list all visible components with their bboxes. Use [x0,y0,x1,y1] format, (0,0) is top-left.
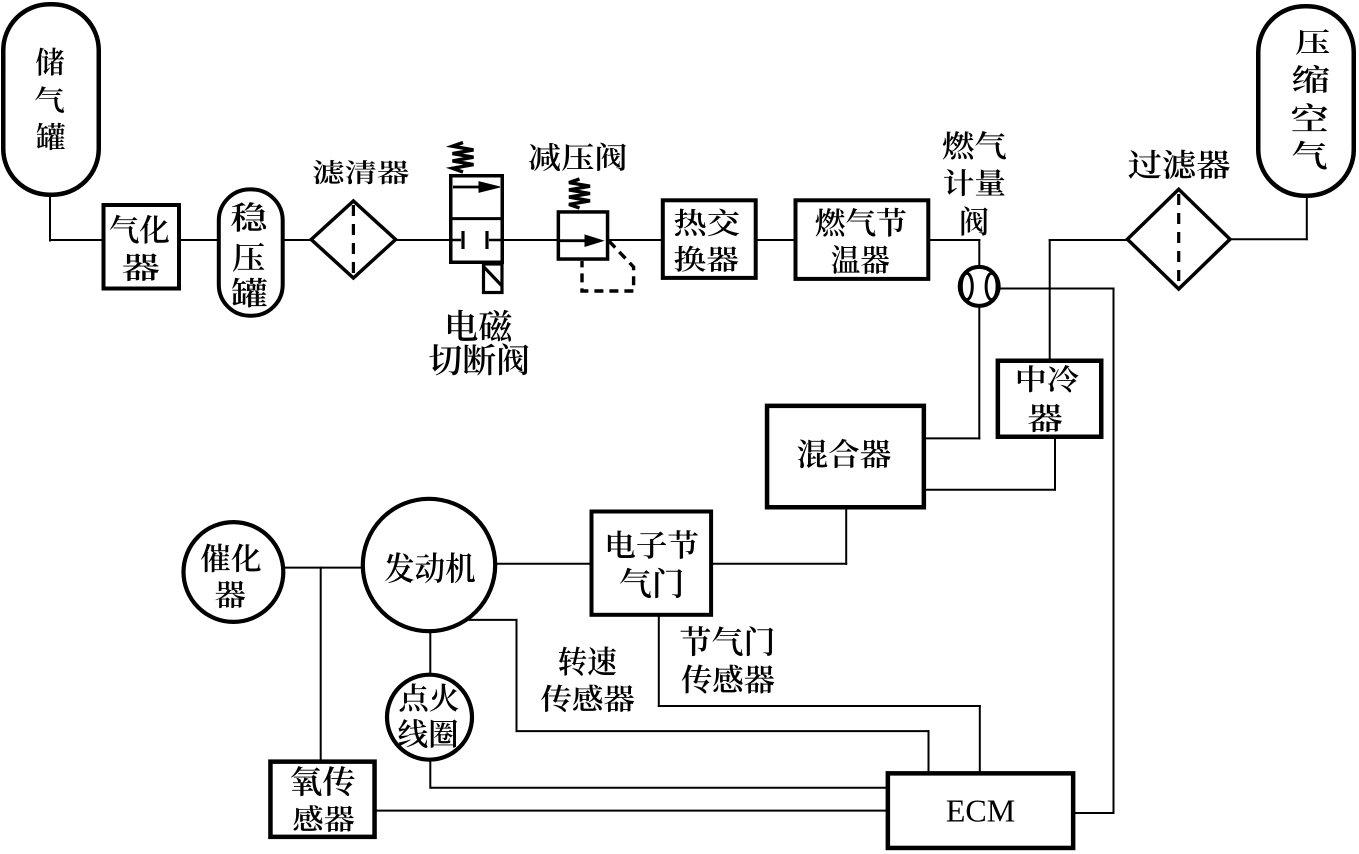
svg-text:ECM: ECM [946,793,1015,829]
